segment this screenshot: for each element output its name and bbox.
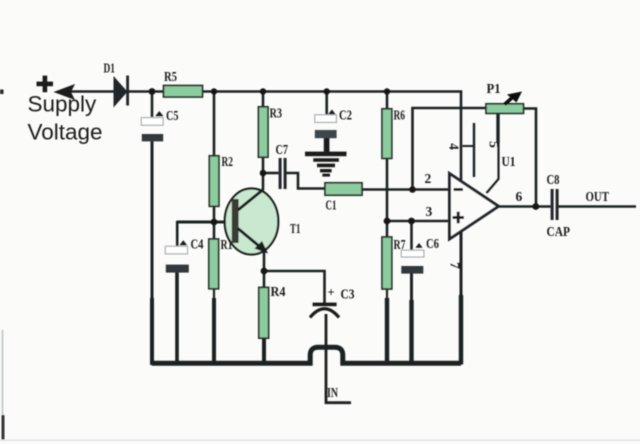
svg-text:C1: C1 [326, 198, 337, 213]
svg-text:T1: T1 [290, 221, 301, 236]
svg-text:R2: R2 [222, 154, 234, 169]
svg-text:C6: C6 [426, 236, 439, 251]
svg-text:U1: U1 [502, 154, 516, 169]
svg-text:R3: R3 [270, 106, 283, 121]
svg-text:R5: R5 [164, 69, 177, 84]
svg-text:C8: C8 [547, 172, 560, 187]
svg-text:C3: C3 [341, 287, 355, 302]
svg-text:5: 5 [486, 141, 501, 148]
svg-text:2: 2 [425, 171, 432, 186]
svg-text:Voltage: Voltage [28, 120, 103, 145]
svg-text:C4: C4 [191, 237, 204, 252]
svg-text:P1: P1 [487, 81, 501, 96]
svg-text:C2: C2 [339, 108, 352, 123]
svg-text:OUT: OUT [586, 190, 610, 205]
svg-text:CAP: CAP [547, 225, 571, 240]
svg-text:6: 6 [516, 189, 523, 204]
svg-text:R1: R1 [221, 237, 233, 252]
svg-text:C7: C7 [276, 142, 289, 157]
svg-text:3: 3 [426, 204, 433, 219]
svg-text:+: + [328, 286, 335, 300]
svg-text:R4: R4 [271, 284, 286, 299]
svg-text:Supply: Supply [28, 92, 98, 117]
svg-text:C5: C5 [166, 108, 179, 123]
svg-text:D1: D1 [104, 61, 116, 76]
svg-text:4: 4 [446, 143, 461, 150]
svg-text:7: 7 [448, 262, 463, 269]
svg-text:R6: R6 [394, 108, 406, 123]
svg-text:IN: IN [327, 385, 338, 400]
svg-text:R7: R7 [394, 237, 406, 252]
